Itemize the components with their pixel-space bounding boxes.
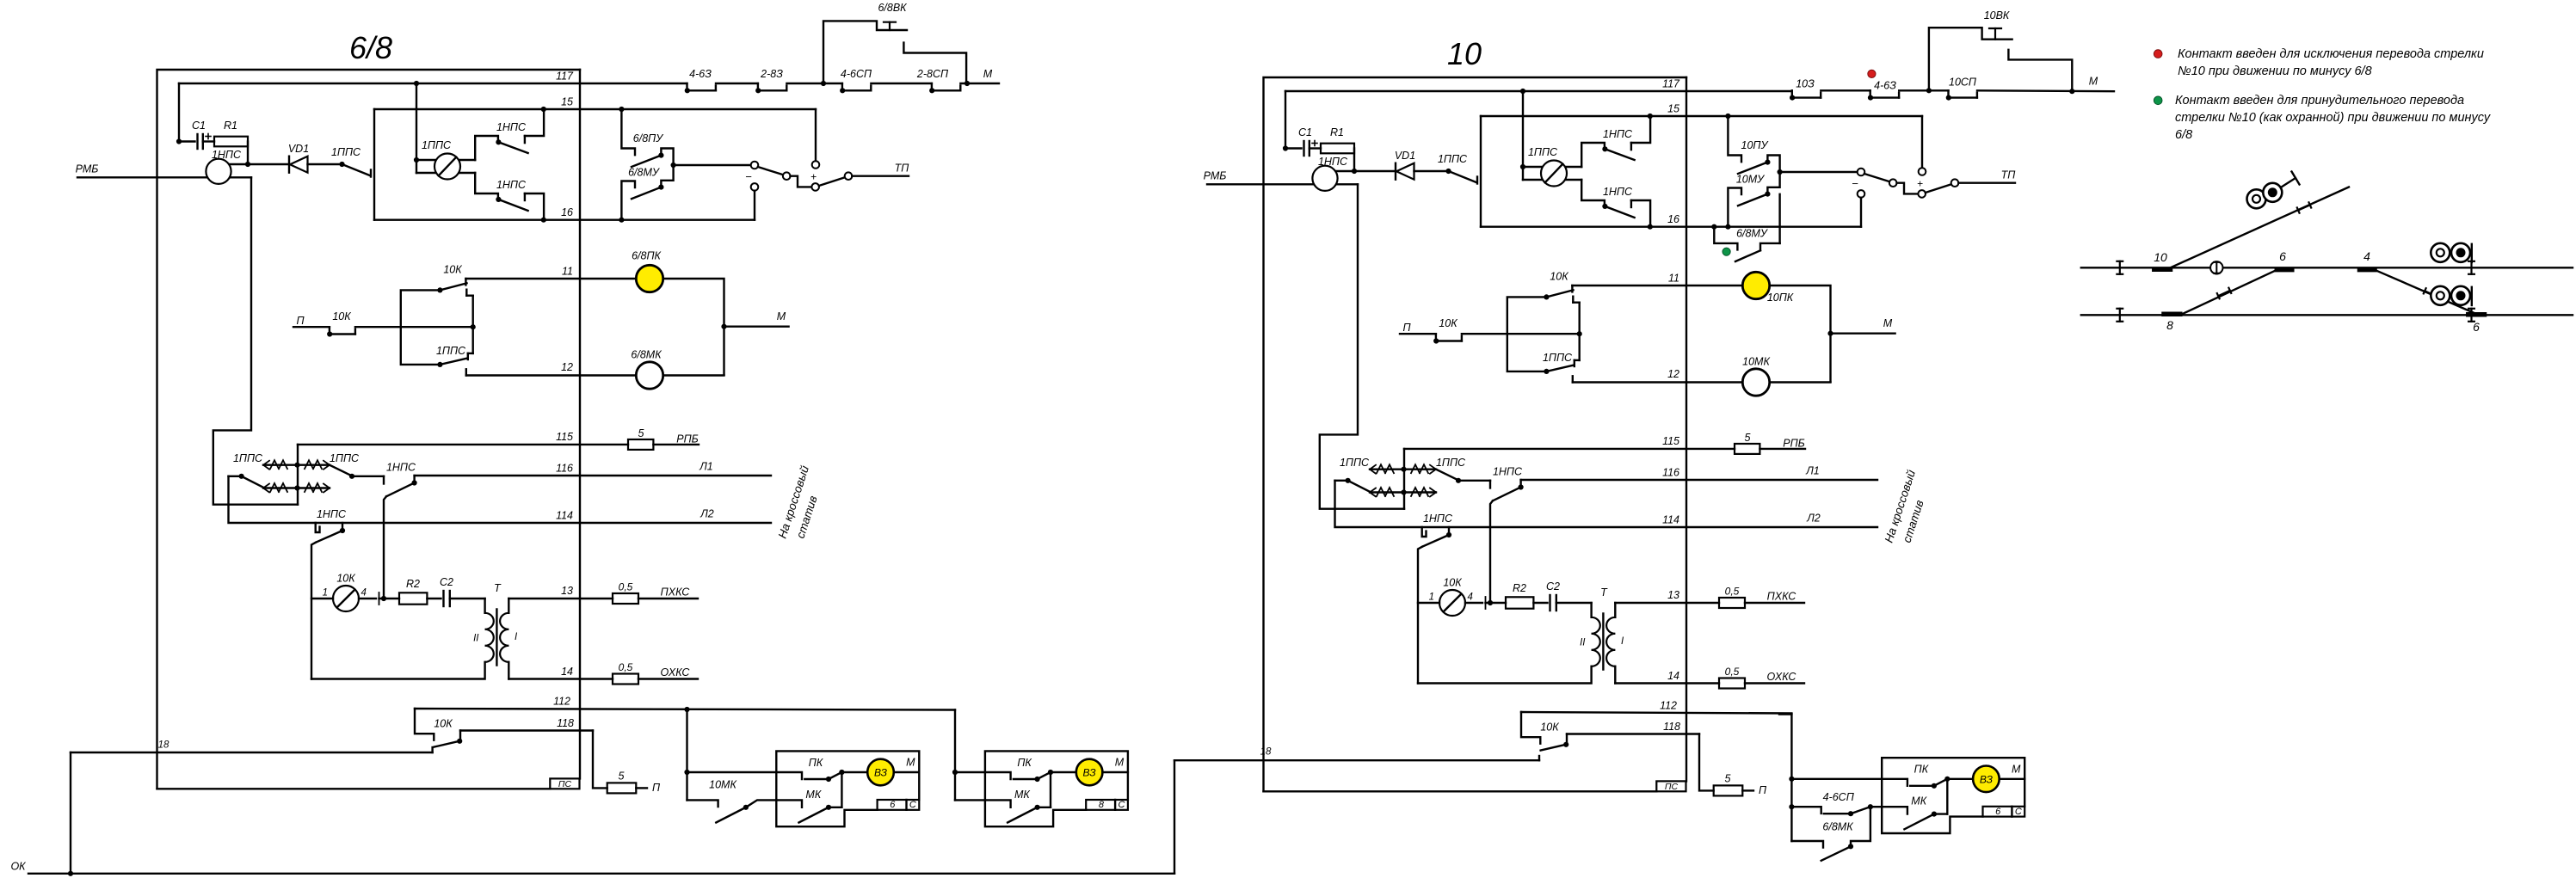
wire 115 (sect 6/8) [298,431,628,445]
common rail (sect 6/8) [466,290,472,359]
transformer T (sect 6/8) [473,582,518,666]
svg-text:4: 4 [2363,249,2370,263]
junction dot ПК feed (sect 10) [1789,777,1794,782]
junction dot common (sect 10) [1577,331,1582,336]
contact 10МУ [1728,174,1770,227]
svg-text:1ППС: 1ППС [1528,146,1558,158]
signal on branch (two heads) [2247,172,2300,209]
wire to 1НПС contact (sect 6/8) [352,476,384,477]
circled joint symbol [2210,261,2222,273]
wire 13 (sect 6/8) [508,585,613,599]
svg-text:10ПУ: 10ПУ [1741,139,1770,151]
junction dot MU (sect 6/8) [671,163,676,168]
wire 16 (sect 10) [1481,213,1861,227]
wire contact down to lamp 10К (sect 6/8) [311,543,316,679]
contact МК (right box 8) [985,772,1051,823]
wire 117 c [871,83,932,84]
svg-text:10К: 10К [1443,577,1462,589]
wire 117 a (sect 10) [1821,89,1870,91]
switch 4 bar [2360,249,2376,270]
junction dot before R2 (sect 10) [1488,600,1493,605]
node on 117 for lamp feed (sect 6/8) [414,81,419,86]
pole contact moving 2 (sect 6/8) [811,183,819,191]
svg-text:VD1: VD1 [1395,150,1415,162]
svg-text:10К: 10К [336,573,355,585]
svg-text:0,5: 0,5 [1725,666,1740,678]
svg-text:М: М [983,68,993,80]
transformer winding connections (sect 6/8) [311,599,508,679]
contact ПК (box 6 sect 10) [1882,764,1950,789]
contact 1НПС upper (sect 10) [1581,116,1650,167]
wire feed to 4-6СП (sect 10) [1791,807,1821,814]
svg-text:−: − [1852,177,1858,190]
fuse П 5 (sect 6/8) [607,771,661,795]
junction dot at diode node (sect 10) [1352,169,1357,174]
relay ПС box (sect 6/8) [550,778,579,789]
svg-text:10: 10 [1447,36,1482,71]
svg-text:М: М [2012,763,2021,775]
wire 1НПС moving down (sect 6/8) [384,496,386,599]
wire 13 (sect 10) [1615,589,1719,603]
wire 117 to C1 (sect 6/8) [179,83,195,142]
wire 12 (sect 10) [1573,368,1743,383]
svg-text:13: 13 [1667,589,1679,601]
track upper line [2081,267,2573,268]
svg-text:5: 5 [638,427,644,439]
svg-text:10К: 10К [434,718,453,730]
svg-text:11: 11 [562,266,573,278]
svg-text:10СП: 10СП [1949,77,1977,89]
wire lower pole to 16 (sect 10) [1860,198,1862,227]
fixed side rail (sect 10) [1507,297,1544,371]
svg-text:МК: МК [1911,795,1926,807]
svg-text:4-6З: 4-6З [1874,80,1896,92]
capacitor C2 (sect 10) [1546,580,1560,611]
svg-text:М: М [1883,317,1893,329]
svg-text:116: 116 [1662,467,1679,479]
wire 112 right (sect 10) [1779,713,1791,715]
wire М stub (sect 6/8) [724,310,789,327]
svg-text:115: 115 [1662,435,1679,447]
pole contact minus fixed (sect 10) [1852,169,1864,190]
svg-text:1НПС: 1НПС [386,462,416,474]
junction dot МК feed (sect 10) [1789,804,1794,809]
wire ТП (sect 10) [1958,169,2016,183]
fuse 0,5 ПХКС (sect 10) [1719,586,1804,609]
svg-text:C1: C1 [192,120,206,132]
svg-text:13: 13 [561,585,573,597]
svg-text:10К: 10К [443,264,462,276]
wire РМБ branch down (sect 6/8) [213,177,298,504]
contact 10К to wire 11 (sect 10) [1544,271,1573,300]
svg-text:2-8З: 2-8З [760,68,783,80]
wire П to common node (sect 6/8) [355,326,473,328]
svg-text:2-8СП: 2-8СП [916,68,949,80]
contact 10СП on 117 (sect 10) [1946,77,1977,101]
contact 1ППС (sect 6/8) [331,146,371,177]
svg-text:6/8ПУ: 6/8ПУ [633,132,664,144]
svg-text:МК: МК [805,789,821,801]
wire 15 (sect 6/8) [374,96,816,110]
wire 118 down to fuse П (sect 6/8) [593,731,607,789]
contact 4-6З on 117 (sect 10) [1868,80,1899,101]
wire relay bottom right (sect 6/8) [231,176,252,178]
arrester rows 1ППС (sect 10) [1340,457,1466,497]
pole contact ТП fixed (sect 6/8) [845,172,853,180]
svg-text:10К: 10К [1550,271,1568,283]
contact 1НПС to 116 (sect 6/8) [384,462,417,497]
signal right lower (two heads) [2431,286,2472,305]
svg-text:Л2: Л2 [699,508,714,520]
wire relay bottom right (sect 10) [1337,183,1359,185]
resistor R1 (sect 6/8) [203,120,248,146]
svg-text:№10 при движении по минусу 6/8: №10 при движении по минусу 6/8 [2178,64,2372,78]
resistor R1 (sect 10) [1310,126,1354,153]
contact МК (box 6 sect 10) [1882,779,1947,830]
wire 18 down to ОК [70,752,71,874]
junction dot 15 (sect 6/8) [541,107,546,112]
svg-text:1ППС: 1ППС [1340,457,1370,469]
svg-text:4: 4 [361,588,367,599]
svg-text:ПК: ПК [1914,764,1929,776]
svg-text:II: II [473,634,479,644]
junction dot lamp feed (sect 10) [1520,164,1525,169]
junction dot 16 (sect 6/8) [541,218,546,223]
svg-text:П: П [652,782,661,794]
svg-text:П: П [1402,322,1411,334]
fuse 0,5 ОХКС (sect 6/8) [613,661,698,685]
signal right upper (two heads) [2431,243,2472,262]
svg-text:ПК: ПК [1017,757,1032,769]
frame outline (sect 6/8) [157,70,581,789]
junction dot 112 feed 1 [684,707,689,712]
svg-text:ОХКС: ОХКС [661,666,691,678]
contact 4-6З on 117 [685,68,716,93]
arrester rows 1ППС (sect 6/8) [233,452,360,493]
junction dot before R2 (sect 6/8) [381,596,386,601]
svg-text:5: 5 [619,771,625,783]
insulated joint lower right [2468,309,2474,322]
wire 1НПС moving down (sect 10) [1490,500,1493,603]
svg-text:II: II [1580,638,1586,648]
svg-text:6/8МК: 6/8МК [1822,821,1853,833]
wire 117 a [716,83,758,84]
svg-text:РПБ: РПБ [676,433,699,445]
wire 12 (sect 6/8) [466,361,637,376]
svg-text:6/8МУ: 6/8МУ [628,167,661,179]
contact 1ППС right blade (sect 10) [1436,470,1461,483]
svg-text:Контакт введен для исключения: Контакт введен для исключения перевода с… [2178,47,2484,61]
wire contact down to lamp 10К (sect 10) [1418,547,1422,684]
wire lamp right lead (sect 6/8) [359,592,399,605]
svg-text:П: П [1759,784,1767,796]
wire 117 down to lamp 1ППС (sect 10) [1522,91,1524,180]
wire C2 to transformer (sect 6/8) [450,598,485,599]
wire VD1 to contact (sect 6/8) [308,163,342,165]
contact 1НПС to 116 (sect 10) [1490,466,1524,501]
transformer winding connections (sect 10) [1418,603,1615,684]
wire 114 stub (sect 10) [1335,481,1878,527]
frame outline (sect 10) [1264,77,1687,791]
capacitor C2 (sect 6/8) [440,576,453,606]
svg-text:114: 114 [556,510,573,522]
resistor R2 (sect 6/8) [399,578,427,605]
junction dot lamp feed (sect 6/8) [414,157,419,163]
wire 117 to М [960,68,999,86]
contact 6/8ПУ [621,109,664,167]
contact 10МК [709,779,776,823]
branch track 10 [2171,187,2350,268]
svg-text:ПХКС: ПХКС [1767,591,1797,603]
svg-text:16: 16 [1667,213,1679,225]
wire to 1НПС contact (sect 10) [1458,480,1490,482]
contact 1ППС to wire 12 (sect 6/8) [436,345,468,376]
wire feed to box 6 ПК [687,771,777,773]
svg-text:М: М [2089,76,2098,88]
fuse РПБ 5 (sect 6/8) [628,427,699,450]
svg-text:ПС: ПС [558,779,572,789]
switch 6b bar [2468,315,2485,334]
wire 118 down to fuse П (sect 10) [1699,734,1714,791]
contact 1НПС lower (sect 6/8) [475,173,544,220]
svg-text:117: 117 [1662,78,1680,90]
wire 10ВК to 117 [2008,50,2072,91]
wire П (sect 6/8) [293,326,330,328]
svg-text:0,5: 0,5 [619,581,633,593]
wire 115 rail (sect 6/8) [297,445,299,505]
svg-text:R2: R2 [1513,582,1526,594]
contact 1НПС lower (sect 10) [1581,180,1650,227]
svg-text:1НПС: 1НПС [1493,466,1523,478]
svg-text:1НПС: 1НПС [1318,156,1348,168]
fuse 0,5 ОХКС (sect 10) [1719,666,1804,689]
svg-text:R1: R1 [224,120,237,132]
lamp ВЗ (box 6 sect 10) [1947,763,2024,792]
wire feed to box 8 ПК [955,771,985,773]
wire R1 to diode node (sect 6/8) [247,142,249,165]
wire П (sect 10) [1400,333,1436,335]
wire 12 lamp to М branch (sect 10) [1770,381,1831,383]
wire feed to box ПК (sect 10) [1791,778,1882,780]
contact 1НПС on 114 (sect 10) [1422,513,1453,547]
wire PU to junction (sect 6/8) [661,149,673,187]
link track 8 to 6 [2180,270,2277,316]
svg-text:+: + [1917,178,1923,190]
svg-text:РМБ: РМБ [1204,170,1227,182]
svg-text:1НПС: 1НПС [496,179,527,191]
wire 117 to C1 (sect 10) [1285,91,1302,149]
terminal РМБ label (sect 10) [1204,170,1227,182]
relay ПС box (sect 10) [1656,781,1685,792]
svg-text:1ППС: 1ППС [1438,153,1468,165]
junction dot at diode node (sect 6/8) [245,162,250,167]
junction dot 16 left (sect 10) [1711,224,1716,230]
insulated joint on link 4-6 [2424,288,2437,299]
svg-text:ТП: ТП [895,163,910,175]
junction dot 16 MU (sect 6/8) [619,218,624,223]
wire МУ junction extended down (sect 10) [1778,194,1780,243]
wire 112 to box 8 [954,710,956,801]
relay box ВЗ outline (box 6 sect 10) [1882,758,2024,833]
relay box ВЗ outline (right box 8) [985,751,1128,826]
section title 6/8 [349,30,392,65]
junction dot 16 MU (sect 10) [1725,224,1730,230]
svg-text:15: 15 [1667,103,1679,115]
svg-text:4: 4 [1468,592,1473,603]
svg-text:1: 1 [1429,592,1434,603]
node on 117 for lamp feed (sect 10) [1520,89,1525,94]
wire 11 lamp to М branch (sect 6/8) [663,279,724,375]
svg-text:C2: C2 [1546,580,1560,592]
svg-text:11: 11 [1668,273,1679,285]
contact 4-6СП on 117 [840,68,872,93]
relay coil 1НПС (РМБ) (sect 10) [1312,156,1348,191]
svg-text:1ППС: 1ППС [1436,457,1466,469]
svg-text:12: 12 [1667,368,1679,380]
note about red contact [2178,47,2484,78]
lamp ВЗ (right box 8) [1051,757,1128,786]
svg-text:1НПС: 1НПС [1423,513,1453,525]
junction dot 15 PU (sect 10) [1725,114,1730,119]
section title 10 [1447,36,1482,71]
wire R2 to C2 (sect 10) [1533,602,1547,604]
svg-text:1НПС: 1НПС [496,121,527,133]
svg-text:10К: 10К [332,310,351,322]
wire ОК up to 18 (sect 10) [1174,761,1175,874]
junction dot common (sect 6/8) [471,324,476,329]
wire contact-group left rail (sect 10) [1480,116,1482,227]
pole contact moving 2 (sect 10) [1918,190,1926,198]
terminal П label (sect 10) [1402,322,1411,334]
svg-text:15: 15 [561,96,573,108]
wire РМБ (sect 6/8) [77,176,207,178]
svg-text:117: 117 [556,71,574,83]
pole contact moving 1 (sect 10) [1889,179,1897,187]
svg-text:ПХКС: ПХКС [661,586,691,599]
wire 112 corner down (sect 10) [1790,715,1792,842]
svg-text:1ППС: 1ППС [330,452,360,464]
wire 112 (sect 10) [1521,700,1791,714]
svg-text:ВЗ: ВЗ [874,767,888,779]
svg-text:1ППС: 1ППС [331,146,361,158]
svg-text:R1: R1 [1330,126,1344,138]
insulated joint upper left [2117,261,2123,274]
relay box ВЗ outline (left box 6) [776,751,919,826]
svg-text:1НПС: 1НПС [317,508,347,520]
svg-text:ПК: ПК [809,757,823,769]
red note marker [2154,50,2162,58]
pole link wire (sect 6/8) [791,176,812,187]
contact 6/8МУ extra (sect 10) [1714,227,1779,261]
svg-text:М: М [906,757,915,769]
contact 1НПС upper (sect 6/8) [475,109,544,160]
wire РМБ (sect 10) [1207,183,1314,185]
lamp 6/8МК [631,349,662,390]
wire lamp left lead (sect 6/8) [311,598,333,599]
contact 2-8З on 117 [755,68,786,93]
terminal П label (sect 6/8) [296,315,305,327]
svg-text:6/8: 6/8 [349,30,392,65]
junction dot box 8 feed [952,770,958,775]
pole blade 1 (sect 6/8) [758,167,784,175]
switch 10 bar [2154,250,2170,269]
label plate (right box 8) [1086,800,1128,810]
wire R1 to diode node (sect 10) [1353,149,1355,172]
svg-text:C1: C1 [1298,126,1312,138]
svg-text:ОК: ОК [10,861,26,873]
svg-text:РМБ: РМБ [76,163,99,175]
contact 1ППС to wire 12 (sect 10) [1543,352,1575,383]
insulated joint on branch 10 [2297,202,2311,212]
svg-text:14: 14 [1667,670,1679,682]
wire 14 (sect 6/8) [508,666,613,679]
svg-text:0,5: 0,5 [1725,586,1740,598]
wire СП to box МК (sect 10) [1870,806,1882,807]
wire 112 (sect 6/8) [415,696,955,710]
svg-text:18: 18 [158,740,169,751]
svg-text:С: С [2015,807,2022,817]
svg-text:112: 112 [553,696,570,708]
svg-text:6: 6 [1995,807,2001,817]
svg-text:14: 14 [561,666,573,678]
green note marker [2154,96,2162,105]
svg-text:4-6З: 4-6З [689,68,712,80]
track lower line [2081,314,2573,316]
wire 15 (sect 10) [1481,103,1922,117]
svg-text:Л1: Л1 [699,461,713,473]
fuse П 5 (sect 10) [1714,773,1767,797]
insulated joint on link 8-6 [2217,288,2231,299]
svg-text:8: 8 [2166,318,2173,332]
svg-text:10К: 10К [1439,317,1457,329]
lamp 6/8ПК [632,250,663,292]
pole contact lower fixed (sect 6/8) [751,183,759,191]
lamp leads (sect 6/8) [416,160,475,173]
svg-text:МК: МК [1014,789,1030,801]
wire 11 (sect 10) [1572,273,1742,286]
wire 114 stub (sect 6/8) [229,476,772,523]
svg-text:12: 12 [561,361,573,373]
contact 10К on П wire (sect 10) [1433,317,1462,344]
pole contact lower fixed (sect 10) [1858,190,1865,198]
svg-text:10МК: 10МК [709,779,736,791]
wire 112 down to box 6 [686,709,687,800]
contact 10К to wire 11 (sect 6/8) [437,264,466,293]
svg-text:0,5: 0,5 [619,661,633,673]
svg-text:10МК: 10МК [1742,356,1770,368]
wire lamp right lead (sect 10) [1465,597,1506,609]
wire П to common node (sect 10) [1462,333,1580,335]
green marker dot [1722,248,1730,255]
insulated joint upper right [2468,261,2474,274]
resistor R2 (sect 10) [1506,582,1533,609]
wire 116 (sect 10) [1521,465,1877,481]
terminal РМБ label (sect 6/8) [76,163,99,175]
svg-text:10ВК: 10ВК [1984,9,2010,21]
pole contact minus fixed (sect 6/8) [745,162,758,183]
svg-text:R2: R2 [406,578,420,590]
svg-text:6/8ВК: 6/8ВК [878,2,907,14]
svg-text:1ППС: 1ППС [233,452,263,464]
contact 1ППС left blade (sect 6/8) [229,474,264,488]
svg-text:М: М [777,310,786,322]
contact 2-8СП on 117 [916,68,960,93]
svg-text:ПС: ПС [1665,782,1679,792]
lamp ВЗ (left box 6) [841,757,919,786]
contact МК (left box 6) [776,772,841,823]
wire 16 (sect 6/8) [374,206,755,220]
lamp 10ПК [1742,272,1793,304]
